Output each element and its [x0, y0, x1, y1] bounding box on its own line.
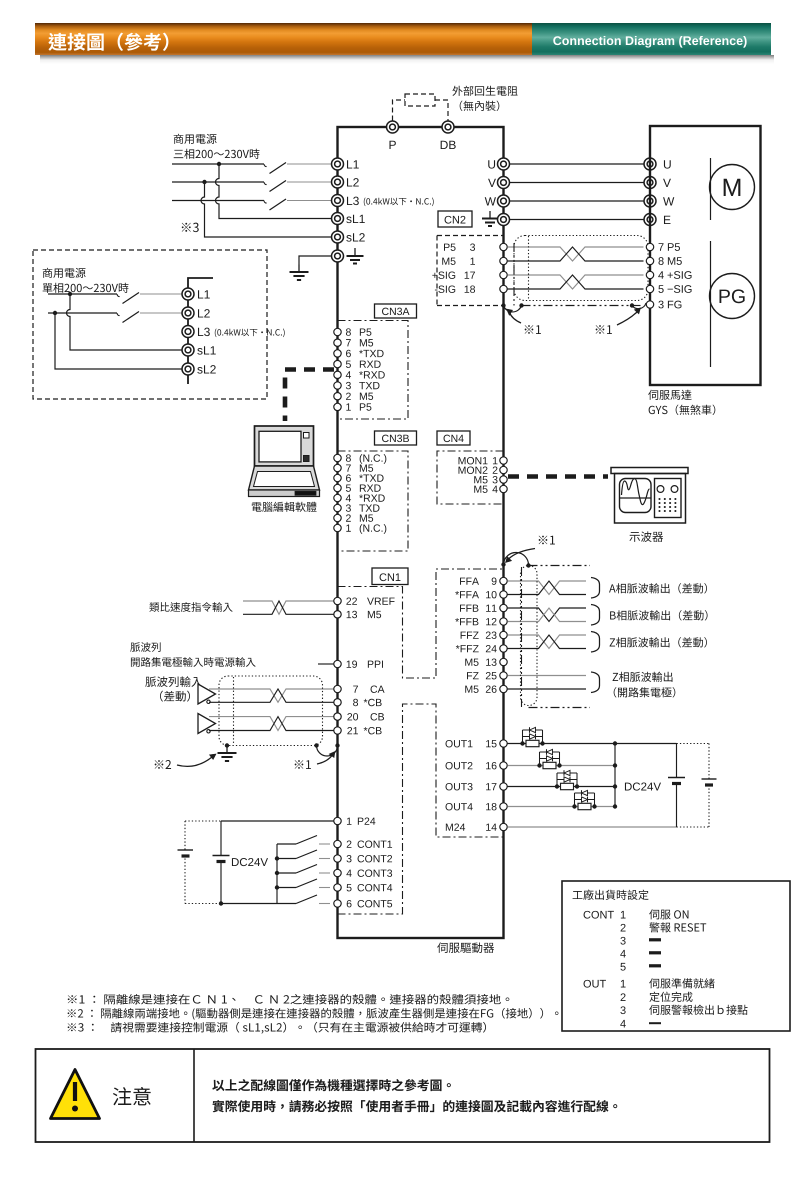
shield bottom line to FG (dash-dot-dot) [522, 305, 644, 307]
CONT 5 [620, 963, 625, 971]
terminal L3 (1ph) [182, 326, 194, 338]
CN1 pin 1 P24 [334, 817, 341, 824]
CN1 pin 10 *FFA [455, 591, 479, 598]
CN1 pin 14 M24 [446, 823, 465, 830]
label ※1 (PG side shield) [596, 325, 612, 334]
cable: CN4 to oscilloscope (thick dashed) [508, 474, 608, 479]
CN1 region lower (dash-dot) [338, 704, 504, 914]
terminal E (drive) [498, 214, 510, 226]
cable: CN3A to PC (thick dashed) [285, 370, 334, 422]
CN1 pin 20 CB [334, 713, 341, 720]
label: oscilloscope [629, 531, 663, 542]
junction battery bottom [219, 901, 223, 905]
CN3A region (dash-dot) [338, 321, 409, 420]
arc: shield bond (encoder out) [504, 552, 529, 565]
CN3B region (dash-dot) [338, 451, 409, 551]
CN1 pin 3 CONT2 [334, 855, 341, 862]
OUT rows [584, 980, 606, 988]
CN1 pin 5 CONT4 [334, 884, 341, 891]
junction on L2 feed (1ph) [53, 311, 57, 315]
wire+breaker pole L1 (1ph) [48, 293, 117, 295]
CN3A pin 8 P5 [334, 328, 341, 335]
caution divider [193, 1049, 195, 1142]
arc: shield bond to frame [317, 746, 338, 756]
junction CONT bus [275, 885, 279, 889]
wire sL2..PE edge [337, 243, 339, 250]
junction CONT bus [275, 871, 279, 875]
CN3A pin 3 TXD [334, 382, 341, 389]
CN1 pin 26 M5 [465, 686, 478, 693]
twisted pair CA/*CB [209, 689, 334, 702]
CN1 pin 13 M5 [465, 659, 478, 666]
CN1 pin 22 VREF [334, 597, 341, 604]
bracket B-phase [591, 605, 600, 626]
warning triangle [51, 1070, 100, 1119]
CN2 pin 18 -SIG [435, 285, 455, 292]
wire OUT4 [508, 806, 616, 808]
arc: shield bond at drive side [504, 306, 522, 312]
PG pin 5 −SIG [646, 285, 653, 292]
terminal P [387, 121, 399, 133]
twisted pair FFB (B-phase out) [508, 608, 587, 622]
junction on L2 feed [202, 180, 206, 184]
label: servo motor GYS [648, 390, 691, 400]
wire P24 [221, 820, 334, 822]
wire stub PPI [318, 663, 334, 665]
CN2 label box [438, 211, 472, 227]
wire OUT1 [508, 743, 677, 745]
PG pin 4 +SIG [646, 271, 653, 278]
bracket Z-phase OC [591, 672, 600, 693]
junction on L1 feed (1ph) [68, 292, 72, 296]
CN3B pin 5 RXD [334, 484, 341, 491]
terminal U (drive) [488, 160, 495, 168]
CN2 pin 1 M5 [442, 258, 455, 265]
terminal DB [442, 121, 454, 133]
shield envelope (pulse input, dotted) [219, 676, 323, 746]
oscilloscope buttons grid [658, 498, 660, 500]
label: B-phase pulse output (diff) [610, 610, 707, 620]
motor M symbol [710, 165, 755, 210]
arc: shield bond at PG side [632, 303, 646, 309]
CN1 pin 21 *CB [334, 727, 341, 734]
junction: shield right end [314, 743, 318, 747]
label: Z-phase pulse output (open collector) [613, 672, 673, 682]
caution text line 1 [212, 1079, 451, 1091]
wire: L1 tap to sL1 (hops over L2,L3) [216, 164, 332, 219]
CONT 3 [620, 937, 625, 945]
CN1 pin 7 CA [334, 685, 341, 692]
wire: resistor to DB (dashed) [435, 100, 448, 121]
CN1 pin 8 *CB [334, 699, 341, 706]
CN1 pin 15 OUT1 [445, 740, 472, 747]
terminal L1 (1ph) [182, 288, 194, 300]
twisted pair FFA (A-phase out) [508, 581, 587, 595]
junction: shield to drive frame [501, 303, 505, 307]
CN1 region upper (dash-dot) [338, 569, 504, 678]
shield drain wire (dash-dot-dot) [513, 243, 515, 306]
CN1 pin 13 M5 [334, 611, 341, 618]
CN1 pin 6 CONT5 [334, 900, 341, 907]
CN4 pin 3 M5 [474, 476, 487, 483]
relay load OUT1 [522, 730, 524, 744]
wire: P to external resistor (dashed) [393, 100, 406, 121]
battery DC24V (output circuit) [625, 782, 661, 790]
CN1 pin 16 OUT2 [445, 762, 472, 769]
CN3B pin 8 (N.C.) [334, 454, 341, 461]
CN1 pin 12 *FFB [455, 618, 478, 625]
switch CONT5 [277, 903, 296, 905]
OUT 2 [621, 993, 626, 1001]
CONT 4 [620, 950, 626, 958]
CN1 pin 25 FZ [467, 672, 479, 679]
header title text 連接圖（參考） [48, 33, 168, 51]
mini drive edge [188, 278, 213, 384]
CONT rows [584, 911, 614, 919]
junction: shield to ground [225, 743, 229, 747]
label: caution (注意) [113, 1087, 151, 1105]
terminal L2 [332, 176, 344, 188]
terminal U (motor) [644, 158, 656, 170]
shield envelope (encoder out, dotted) [521, 566, 538, 706]
wire battery bottom [221, 903, 277, 905]
CN1 pin 18 OUT4 [445, 803, 472, 810]
twisted pair VREF/M5 [243, 601, 334, 614]
CONT 1 [621, 911, 626, 919]
PG pin 8 M5 [646, 257, 653, 264]
wire: PE to earth [299, 256, 332, 265]
terminal L2 (1ph) [182, 307, 194, 319]
CN4 pin 4 M5 [474, 486, 487, 493]
servo drive main box U1 [338, 127, 504, 938]
terminal V (motor) [644, 177, 656, 189]
CN1 pin 24 *FFZ [456, 645, 479, 652]
label ※3 [182, 223, 199, 232]
switch CONT1 [277, 843, 296, 845]
label ※2 with arrow [155, 760, 171, 769]
header english title [553, 36, 746, 48]
label: commercial power 3-phase [174, 134, 217, 144]
label: pulse train / open collector supply input [130, 642, 160, 652]
switch CONT2 [277, 858, 296, 860]
wire+breaker pole L2 (1ph) [48, 312, 117, 314]
label: external regen resistor [452, 86, 517, 96]
wire battery top (dotted) [185, 820, 221, 822]
CN3B pin 1 (N.C.) [334, 524, 341, 531]
ground symbol (power input earth) [298, 265, 300, 273]
CN2 region (dashed) [437, 235, 504, 237]
CN4 region (dash-dot) [437, 451, 504, 504]
relay load OUT4 [574, 793, 576, 807]
CN3A pin 6 *TXD [334, 350, 341, 357]
CN3B pin 6 *TXD [334, 474, 341, 481]
CN3A pin 7 M5 [334, 339, 341, 346]
wire FZ (Z-phase open collector) [508, 675, 587, 677]
terminal sL2 (1ph) [182, 363, 194, 375]
relay load OUT2 [539, 752, 541, 766]
CN1 pin 23 FFZ [461, 632, 479, 639]
shield envelope (encoder cable, dotted) [514, 236, 648, 301]
servo motor box [650, 126, 761, 385]
resistor: external regenerative resistor [405, 94, 435, 106]
junction bus/OUT2 [613, 763, 617, 767]
CONT 2 [621, 924, 626, 932]
terminal W (motor) [644, 195, 656, 207]
junction: shield at PG side [630, 303, 634, 307]
wire OUT2 [508, 765, 616, 767]
junction bus/OUT4 [613, 804, 617, 808]
label: pulse train input (differential) [145, 676, 202, 687]
optional battery symbol [702, 778, 717, 780]
label ※1 (pulse shield) with arrow [295, 760, 311, 769]
PC laptop icon [249, 426, 320, 497]
PG pin 3 FG [646, 301, 653, 308]
shield line bottom (dash-dot-dot) [529, 707, 591, 709]
CN3A pin 5 RXD [334, 360, 341, 367]
wire+breaker pole L3 [172, 200, 264, 202]
wire U drive to motor [510, 163, 644, 165]
OUT 3 [620, 1006, 625, 1014]
CN4 pin 1 MON1 [459, 457, 488, 464]
note 3 [68, 1022, 486, 1034]
header drop shadow [40, 55, 774, 64]
wire M24 [508, 826, 677, 828]
terminal L3 [332, 195, 344, 207]
terminal sL1 (1ph) [182, 344, 194, 356]
bracket A-phase [591, 578, 600, 599]
battery DC24V (input circuit) [220, 821, 222, 856]
CN3A pin 2 M5 [334, 393, 341, 400]
terminal PE with chassis mark [332, 250, 344, 262]
line driver (CB/*CB) [198, 714, 216, 734]
junction on drive edge [335, 743, 339, 747]
terminal sL1 [332, 213, 344, 225]
label: analog speed command input [149, 602, 232, 612]
terminal E (motor) [644, 214, 656, 226]
terminal V (drive) [488, 179, 496, 187]
wire W drive to motor [510, 200, 644, 202]
caution text line 2 [213, 1100, 618, 1112]
switch CONT3 [277, 872, 296, 874]
CN3B pin 4 *RXD [334, 494, 341, 501]
motor internal divider [710, 158, 712, 220]
wire OUT3 [508, 786, 616, 788]
wire+breaker pole L2 [172, 181, 264, 183]
bus: CONT common [276, 844, 278, 904]
CN1 pin 19 PPI [334, 660, 341, 667]
note 1 [68, 994, 510, 1004]
CN1 pin 4 CONT3 [334, 869, 341, 876]
note 2 [68, 1008, 559, 1020]
CN3A pin 4 *RXD [334, 371, 341, 378]
CN3A pin 1 P5 [334, 403, 341, 410]
terminal L1 [332, 158, 344, 170]
twisted pair FFZ (Z-phase out) [508, 635, 587, 649]
CN3B pin 2 M5 [334, 514, 341, 521]
label: servo drive (伺服驅動器) [437, 942, 494, 953]
line driver (CA/*CB) [198, 684, 216, 704]
CN2 pin 3 P5 [444, 244, 456, 251]
label: commercial power single-phase [43, 268, 86, 278]
wire+breaker pole L1 [172, 163, 264, 165]
junction CONT bus [275, 856, 279, 860]
optional battery (input, dotted) [184, 821, 186, 850]
header bar teal: english title [532, 23, 771, 55]
header bar orange: section title [35, 23, 532, 55]
CN4 label box [437, 431, 470, 445]
CN3B pin 7 M5 [334, 464, 341, 471]
CN3A label box [375, 304, 417, 318]
ground symbol (pulse shield) [226, 746, 228, 754]
label: PC editing software [252, 502, 317, 512]
CN3B pin 3 TXD [334, 504, 341, 511]
label: Z-phase pulse output (diff) [610, 637, 707, 647]
wire: L2 tap to sL2 (hops over L3) [201, 182, 331, 237]
twisted pair +SIG/-SIG (CN2 to PG) [508, 275, 644, 289]
CN1 label box [372, 568, 408, 585]
twisted pair CB/*CB [209, 717, 334, 731]
bracket Z-phase [591, 632, 600, 653]
terminal sL2 [332, 231, 344, 243]
label: A-phase pulse output (diff) [609, 583, 707, 593]
shield line top (dash-dot-dot) [529, 565, 591, 567]
CN4 pin 2 MON2 [459, 466, 488, 473]
wire V drive to motor [510, 182, 644, 184]
oscilloscope icon [611, 468, 688, 474]
junction bus/OUT3 [613, 784, 617, 788]
wire E drive to motor [510, 219, 644, 221]
wire: L2 tap to sL2 (1ph) [55, 313, 182, 369]
label ※1 (encoder out shield) with arrow [539, 536, 555, 545]
twisted pair P5/M5 (CN2 to PG) [508, 247, 644, 261]
junction: frame & shield (top) [501, 562, 505, 566]
label ※1 (drive side shield) [525, 325, 541, 334]
wire to DC24V battery (out) [676, 744, 678, 778]
CN1 pin 2 CONT1 [334, 840, 341, 847]
CN1 pin 11 FFB [460, 605, 478, 612]
relay load OUT3 [556, 773, 558, 787]
chassis mark at E terminal [489, 211, 491, 219]
terminal W (drive) [485, 197, 496, 205]
table title: factory default setting [573, 890, 649, 900]
bus: outputs common [614, 744, 616, 807]
CN3B label box [375, 431, 417, 445]
wire: L1 tap to sL1 (1ph, hops L2) [67, 294, 183, 350]
CN2 pin 17 +SIG [432, 271, 455, 278]
wire M5 26 [508, 688, 587, 690]
option box: single-phase supply (dashed) [33, 250, 267, 399]
optional battery branch (dotted) [677, 743, 710, 745]
OUT 1 [621, 980, 626, 988]
PG pin 7 P5 [646, 243, 653, 250]
switch CONT4 [277, 887, 296, 889]
factory settings table box [562, 881, 790, 1031]
caution box [36, 1049, 770, 1142]
CN1 pin 9 FFA [460, 578, 479, 585]
CN1 pin 17 OUT3 [445, 783, 472, 790]
encoder PG symbol [710, 274, 755, 319]
junction bus/OUT1 [613, 741, 617, 745]
OUT 4 [620, 1020, 626, 1028]
junction on L1 feed [217, 162, 221, 166]
